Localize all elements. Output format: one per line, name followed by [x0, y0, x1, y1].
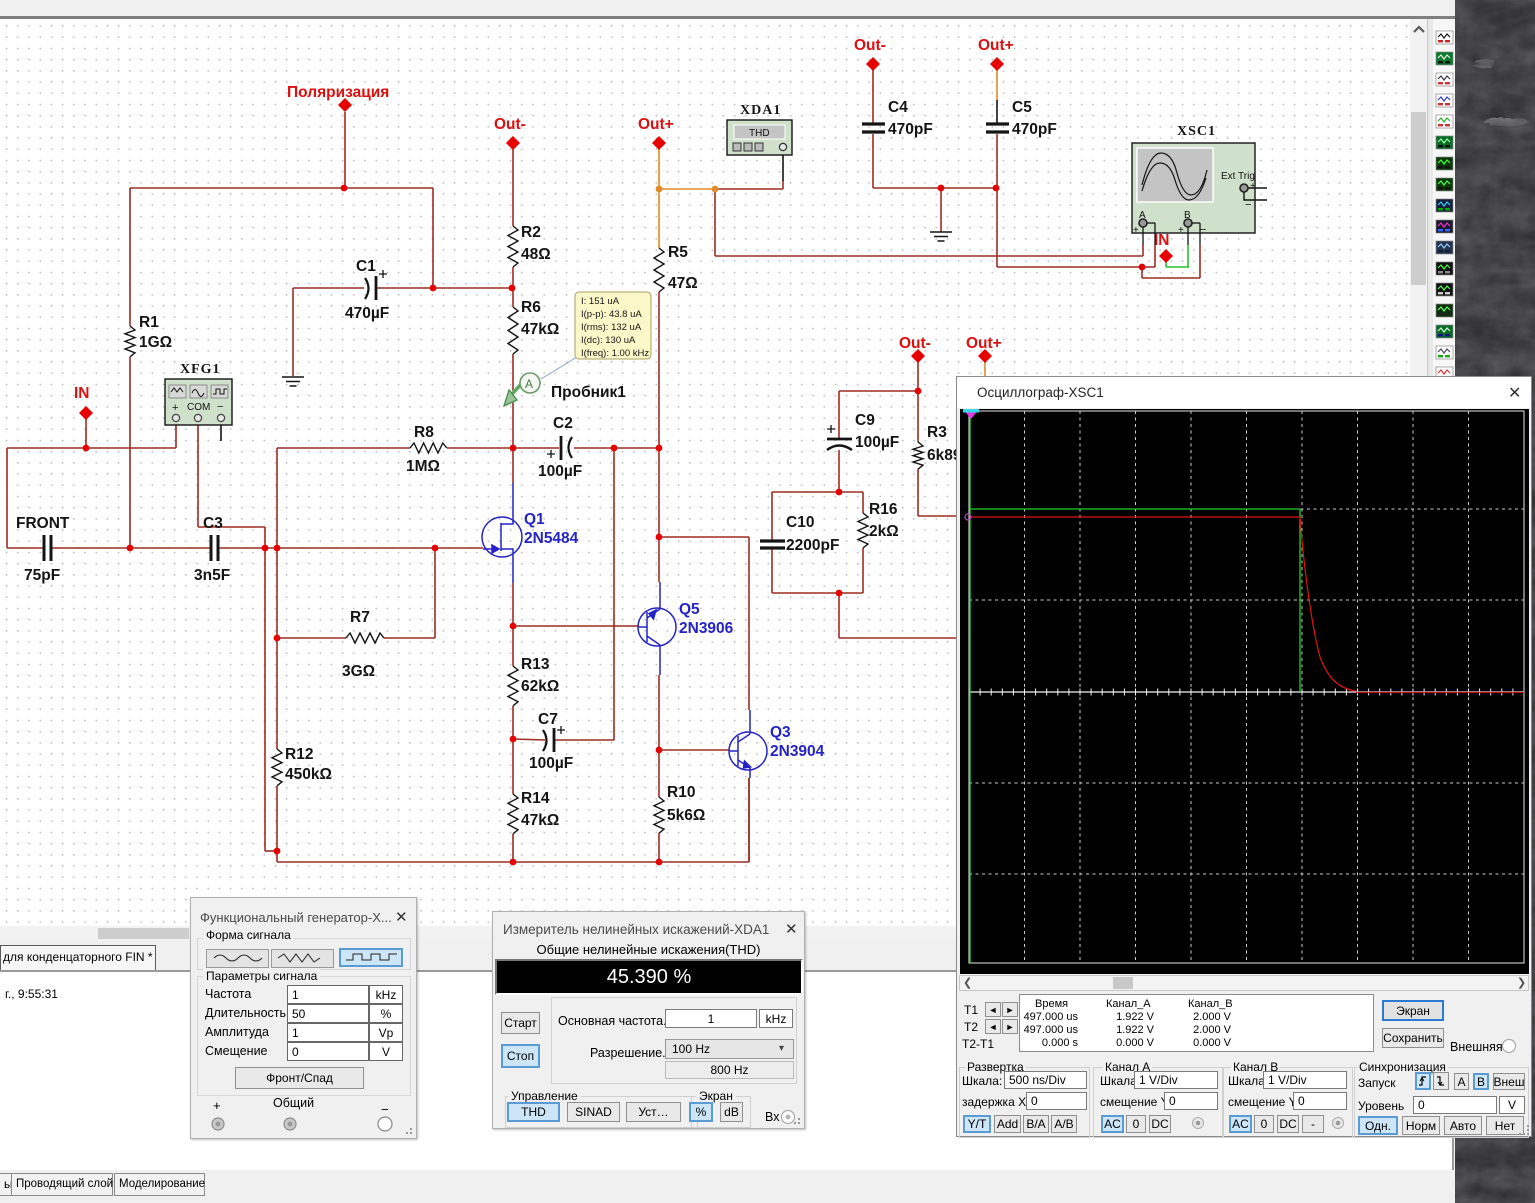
- wire orange Out+ stub: [658, 149, 660, 189]
- junction orange: [712, 186, 719, 193]
- log pane: [0, 972, 1454, 1170]
- wire gate net to R7/R12 node: [276, 548, 278, 638]
- wire IN corner: [6, 448, 8, 548]
- wire R2-R6 node: [512, 267, 514, 307]
- desktop rock texture: [1455, 0, 1535, 1203]
- svg-text:100µF: 100µF: [529, 755, 573, 772]
- wire C1 to ground: [292, 288, 294, 376]
- junction: [510, 736, 517, 743]
- svg-text:47Ω: 47Ω: [668, 275, 698, 292]
- transistor Q1 2N5484: [482, 483, 522, 583]
- svg-text:C9: C9: [855, 412, 875, 429]
- wire C2 right to R5 node: [574, 447, 659, 449]
- wire gate to R7: [434, 548, 436, 638]
- wire Q3 emitter red: [748, 778, 750, 862]
- bottom tab bar: [0, 1170, 1457, 1203]
- instrument XFG1 function generator icon: [165, 362, 232, 425]
- wire C1 left lead: [293, 287, 364, 289]
- svg-text:R7: R7: [350, 609, 370, 626]
- wire Out- mid stub: [917, 362, 919, 390]
- wire R8 to C2: [447, 447, 559, 449]
- resistor R1: [125, 314, 172, 357]
- wire XFG1 + lead: [175, 425, 177, 448]
- canvas v-scrollbar: [1410, 19, 1427, 926]
- svg-text:470pF: 470pF: [888, 121, 933, 138]
- junction: [274, 545, 281, 552]
- svg-text:I(dc): 130 uA: I(dc): 130 uA: [581, 335, 636, 346]
- wire Q5 emitter to node: [658, 675, 660, 750]
- svg-text:2200pF: 2200pF: [786, 537, 839, 554]
- svg-text:I(p-p): 43.8 uA: I(p-p): 43.8 uA: [581, 309, 642, 320]
- svg-text:48Ω: 48Ω: [521, 246, 551, 263]
- wire FRONT left lead: [7, 547, 43, 549]
- wire XDA1 lead red: [782, 180, 784, 189]
- svg-text:100µF: 100µF: [855, 434, 899, 451]
- wire R1 top: [129, 188, 131, 326]
- wire ground stem: [940, 188, 942, 232]
- svg-text:3GΩ: 3GΩ: [342, 663, 375, 680]
- junction: [993, 185, 1000, 192]
- wire R14 bottom: [512, 834, 514, 862]
- svg-text:FRONT: FRONT: [16, 515, 70, 532]
- wire COM horizontal: [198, 526, 265, 528]
- junction: [656, 747, 663, 754]
- wire to R13 top: [512, 626, 514, 666]
- capacitor C2: [547, 436, 572, 460]
- wire C4 to C5 net: [873, 187, 996, 189]
- svg-text:47kΩ: 47kΩ: [521, 321, 559, 338]
- junction: [509, 285, 516, 292]
- capacitor C1: [365, 270, 387, 300]
- net flag Out-: [506, 136, 520, 150]
- ground near C4: [930, 232, 952, 241]
- probe Пробник1 current probe: [504, 373, 540, 406]
- wire to C9: [839, 390, 918, 392]
- wire Q1 drain: [512, 448, 514, 483]
- wire R3 bottom: [917, 469, 919, 516]
- svg-text:Out-: Out-: [899, 335, 931, 352]
- svg-text:Out-: Out-: [494, 116, 526, 133]
- wire B- loop bottom: [1142, 277, 1200, 279]
- resistor R2: [508, 224, 551, 267]
- capacitor C5: [986, 124, 1009, 132]
- wire node to R2/R6: [433, 287, 512, 289]
- svg-text:R14: R14: [521, 790, 550, 807]
- svg-text:−: −: [217, 401, 223, 413]
- junction: [510, 623, 517, 630]
- net flag IN scope: [1159, 249, 1173, 263]
- svg-text:XDA1: XDA1: [740, 103, 781, 118]
- wire IN to XFG1+: [7, 447, 176, 449]
- wire C10 top lead: [771, 492, 773, 540]
- wire R13 bottom: [512, 706, 514, 739]
- junction: [656, 859, 663, 866]
- junction: [1139, 264, 1146, 271]
- net flag Out- mid: [911, 349, 925, 363]
- wire R3 to hidden: [918, 515, 956, 517]
- capacitor C10: [760, 541, 785, 548]
- wire IN flag stub: [85, 419, 87, 448]
- wire to scope A-: [997, 266, 1155, 268]
- wire R6 bottom / probe point: [512, 354, 514, 448]
- capacitor C4: [862, 124, 885, 132]
- svg-text:2kΩ: 2kΩ: [869, 523, 899, 540]
- junction: [510, 445, 517, 452]
- top toolbar strip: [0, 0, 1457, 16]
- wire Q3 emitter down: [748, 778, 750, 862]
- wire scope A+ lead red: [1142, 245, 1144, 256]
- wire C4 bottom: [872, 134, 874, 188]
- wire C9 bottom: [838, 450, 840, 492]
- wire Q5 node to Q3 branch: [659, 536, 749, 538]
- wire loop to right: [838, 593, 840, 638]
- resistor R8: [406, 424, 447, 475]
- wire to hidden right: [839, 637, 956, 639]
- junction: [430, 285, 437, 292]
- wire C10 loop bottom: [772, 592, 863, 594]
- svg-text:R10: R10: [667, 784, 695, 801]
- junction: [836, 489, 843, 496]
- svg-text:R1: R1: [139, 314, 159, 331]
- wire FRONT to C3: [51, 547, 210, 549]
- wire B- loop up: [1199, 245, 1201, 278]
- junction: [510, 859, 517, 866]
- svg-text:+: +: [172, 402, 178, 414]
- resistor R6: [508, 299, 559, 354]
- resistor R12: [272, 746, 332, 786]
- wire XFG1 COM down: [197, 425, 199, 527]
- svg-text:C5: C5: [1012, 99, 1032, 116]
- capacitor C9: [827, 425, 852, 450]
- junction: [262, 545, 269, 552]
- wire green B+ horizontal: [1166, 266, 1189, 268]
- net flag Out+ top: [990, 57, 1004, 71]
- junction: [938, 185, 945, 192]
- resistor R13: [508, 656, 559, 706]
- resistor R14: [508, 790, 559, 834]
- wire COM long vertical: [264, 527, 266, 851]
- transistor Q3 2N3904: [729, 710, 767, 778]
- instrument XDA1 distortion analyzer icon: [727, 103, 792, 155]
- svg-text:R6: R6: [521, 299, 541, 316]
- wire XDA1 lead black: [782, 152, 784, 181]
- capacitor C7: [543, 726, 565, 752]
- wire down to C1 node: [432, 188, 434, 288]
- net flag Out+: [652, 136, 666, 150]
- svg-text:C1: C1: [356, 258, 376, 275]
- svg-text:Q3: Q3: [770, 724, 791, 741]
- wire scope A- lead: [1154, 245, 1156, 267]
- wire C7 right lead: [555, 739, 614, 741]
- wire Поляризация horizontal: [130, 187, 433, 189]
- wire to scope A: [714, 189, 716, 256]
- wire orange Out+ net: [659, 188, 715, 190]
- junction: [656, 445, 663, 452]
- wire to XDA1: [715, 188, 783, 190]
- svg-text:+: +: [1133, 225, 1139, 236]
- svg-text:XFG1: XFG1: [180, 362, 221, 377]
- wire C3 to Q1 gate: [218, 547, 483, 549]
- svg-text:COM: COM: [187, 402, 210, 413]
- svg-text:5k6Ω: 5k6Ω: [667, 807, 705, 824]
- wire Q3 collector up: [748, 537, 750, 710]
- svg-text:100µF: 100µF: [538, 463, 582, 480]
- svg-text:+: +: [1178, 225, 1184, 236]
- svg-text:2N5484: 2N5484: [524, 530, 579, 547]
- wire Поляризация stub: [344, 112, 346, 188]
- wire R3 top: [917, 391, 919, 442]
- junction: [915, 388, 922, 395]
- svg-text:−: −: [1245, 199, 1251, 211]
- wire Q3 base: [659, 749, 730, 751]
- schematic canvas: [0, 19, 1410, 926]
- wire R10 bottom: [658, 833, 660, 862]
- wire Out- to C4: [872, 70, 874, 123]
- svg-text:470pF: 470pF: [1012, 121, 1057, 138]
- wire R10 top: [658, 750, 660, 797]
- svg-text:IN: IN: [1154, 232, 1170, 249]
- wire bottom rail: [277, 861, 749, 863]
- wire R7 left lead: [277, 637, 346, 639]
- svg-text:Out+: Out+: [966, 335, 1002, 352]
- transistor Q5 2N3906: [638, 582, 676, 675]
- wire COM to R12 node: [265, 850, 277, 852]
- svg-text:R12: R12: [285, 746, 313, 763]
- svg-text:C3: C3: [203, 515, 223, 532]
- svg-text:C7: C7: [538, 711, 558, 728]
- junction orange: [656, 186, 663, 193]
- wire Out- to R2: [512, 149, 514, 226]
- wire IN long horizontal: [715, 255, 1143, 257]
- sheet tab strip: [0, 941, 1410, 971]
- wire Out+ mid stub: [984, 362, 986, 377]
- svg-text:R2: R2: [521, 224, 541, 241]
- resistor R10: [654, 784, 705, 833]
- svg-text:2N3906: 2N3906: [679, 620, 734, 637]
- ground near C1: [282, 377, 304, 386]
- svg-text:R16: R16: [869, 501, 898, 518]
- wire C10 loop top: [772, 491, 863, 493]
- svg-text:C10: C10: [786, 514, 814, 531]
- svg-text:Q5: Q5: [679, 601, 700, 618]
- svg-text:1MΩ: 1MΩ: [406, 458, 440, 475]
- svg-text:−: −: [1200, 224, 1206, 236]
- wire to Q5 collector: [658, 537, 660, 582]
- wire R5 node down: [658, 448, 660, 537]
- wire green B+ lead: [1187, 245, 1189, 267]
- wire C2 right to C7: [613, 448, 615, 740]
- svg-text:Поляризация: Поляризация: [287, 84, 389, 101]
- svg-text:A: A: [525, 377, 533, 391]
- wire R16 top: [862, 492, 864, 513]
- junction: [432, 545, 439, 552]
- wire R12 top: [276, 638, 278, 749]
- wire R8 left: [277, 447, 410, 449]
- junction: [611, 445, 618, 452]
- svg-text:I: 151 uA: I: 151 uA: [581, 296, 620, 307]
- wire C1 right lead: [377, 287, 433, 289]
- svg-text:R13: R13: [521, 656, 550, 673]
- wire Q5 base: [513, 625, 639, 627]
- resistor R7: [342, 609, 384, 680]
- junction: [274, 848, 281, 855]
- wire to gate net: [276, 448, 278, 548]
- svg-text:XSC1: XSC1: [1177, 124, 1216, 139]
- svg-text:3n5F: 3n5F: [194, 567, 230, 584]
- wire C5 top lead: [996, 100, 998, 123]
- net flag Out- top: [866, 57, 880, 71]
- wire R7 right lead: [384, 637, 435, 639]
- svg-text:2N3904: 2N3904: [770, 743, 825, 760]
- net flag Поляризация: [338, 98, 352, 112]
- canvas h-scrollbar: [0, 926, 1410, 941]
- capacitor C3: [211, 535, 218, 561]
- instrument XSC1 oscilloscope icon: [1132, 124, 1267, 245]
- junction: [656, 534, 663, 541]
- svg-text:62kΩ: 62kΩ: [521, 678, 559, 695]
- junction: [83, 445, 90, 452]
- svg-text:I(rms): 132 uA: I(rms): 132 uA: [581, 322, 642, 333]
- wire C9 top lead: [838, 391, 840, 438]
- wire R12 bottom: [276, 786, 278, 851]
- svg-text:C4: C4: [888, 99, 908, 116]
- instrument toolbar column: [1433, 19, 1457, 926]
- svg-text:47kΩ: 47kΩ: [521, 812, 559, 829]
- net flag Out+ mid: [978, 349, 992, 363]
- wire C5 bottom long: [996, 134, 998, 267]
- resistor R3: [913, 424, 962, 469]
- wire to B- loop: [1141, 267, 1143, 278]
- resistor R16: [858, 501, 899, 548]
- probe tooltip readout: [541, 292, 651, 379]
- wire R16 bottom: [862, 548, 864, 593]
- net flag IN: [79, 406, 93, 420]
- junction: [341, 185, 348, 192]
- svg-text:75pF: 75pF: [24, 567, 60, 584]
- schematic svg placeholder: [0, 0, 1410, 926]
- wire Q1 source: [512, 583, 514, 626]
- wire R1 bottom to gate net: [129, 357, 131, 548]
- svg-text:Out+: Out+: [978, 37, 1014, 54]
- svg-text:Out-: Out-: [854, 37, 886, 54]
- junction: [836, 590, 843, 597]
- svg-text:450kΩ: 450kΩ: [285, 766, 332, 783]
- svg-text:Q1: Q1: [524, 511, 545, 528]
- svg-text:R3: R3: [927, 424, 947, 441]
- svg-text:+: +: [1250, 181, 1256, 192]
- svg-text:I(freq): 1.00 kHz: I(freq): 1.00 kHz: [581, 348, 649, 359]
- wire orange R5 top: [658, 189, 660, 248]
- svg-text:1GΩ: 1GΩ: [139, 334, 172, 351]
- svg-text:THD: THD: [749, 128, 770, 139]
- svg-text:C2: C2: [553, 415, 573, 432]
- wire C10 bottom lead: [771, 549, 773, 593]
- wire green IN stub: [1165, 262, 1167, 267]
- svg-text:Out+: Out+: [638, 116, 674, 133]
- svg-text:R8: R8: [414, 424, 434, 441]
- junction: [127, 545, 134, 552]
- resistor R5: [654, 244, 698, 292]
- wire to bottom rail: [276, 851, 278, 862]
- wire C7 left lead: [513, 739, 545, 740]
- wire XFG1 - stub: [220, 425, 222, 441]
- junction: [274, 635, 281, 642]
- svg-text:R5: R5: [668, 244, 688, 261]
- wire to R14 top: [512, 739, 514, 794]
- capacitor FRONT 75pF: [44, 535, 51, 561]
- svg-text:470µF: 470µF: [345, 305, 389, 322]
- svg-text:IN: IN: [74, 385, 90, 402]
- wire R5 bottom: [658, 292, 660, 448]
- svg-text:Пробник1: Пробник1: [551, 384, 626, 401]
- wire orange C5 top: [996, 70, 998, 101]
